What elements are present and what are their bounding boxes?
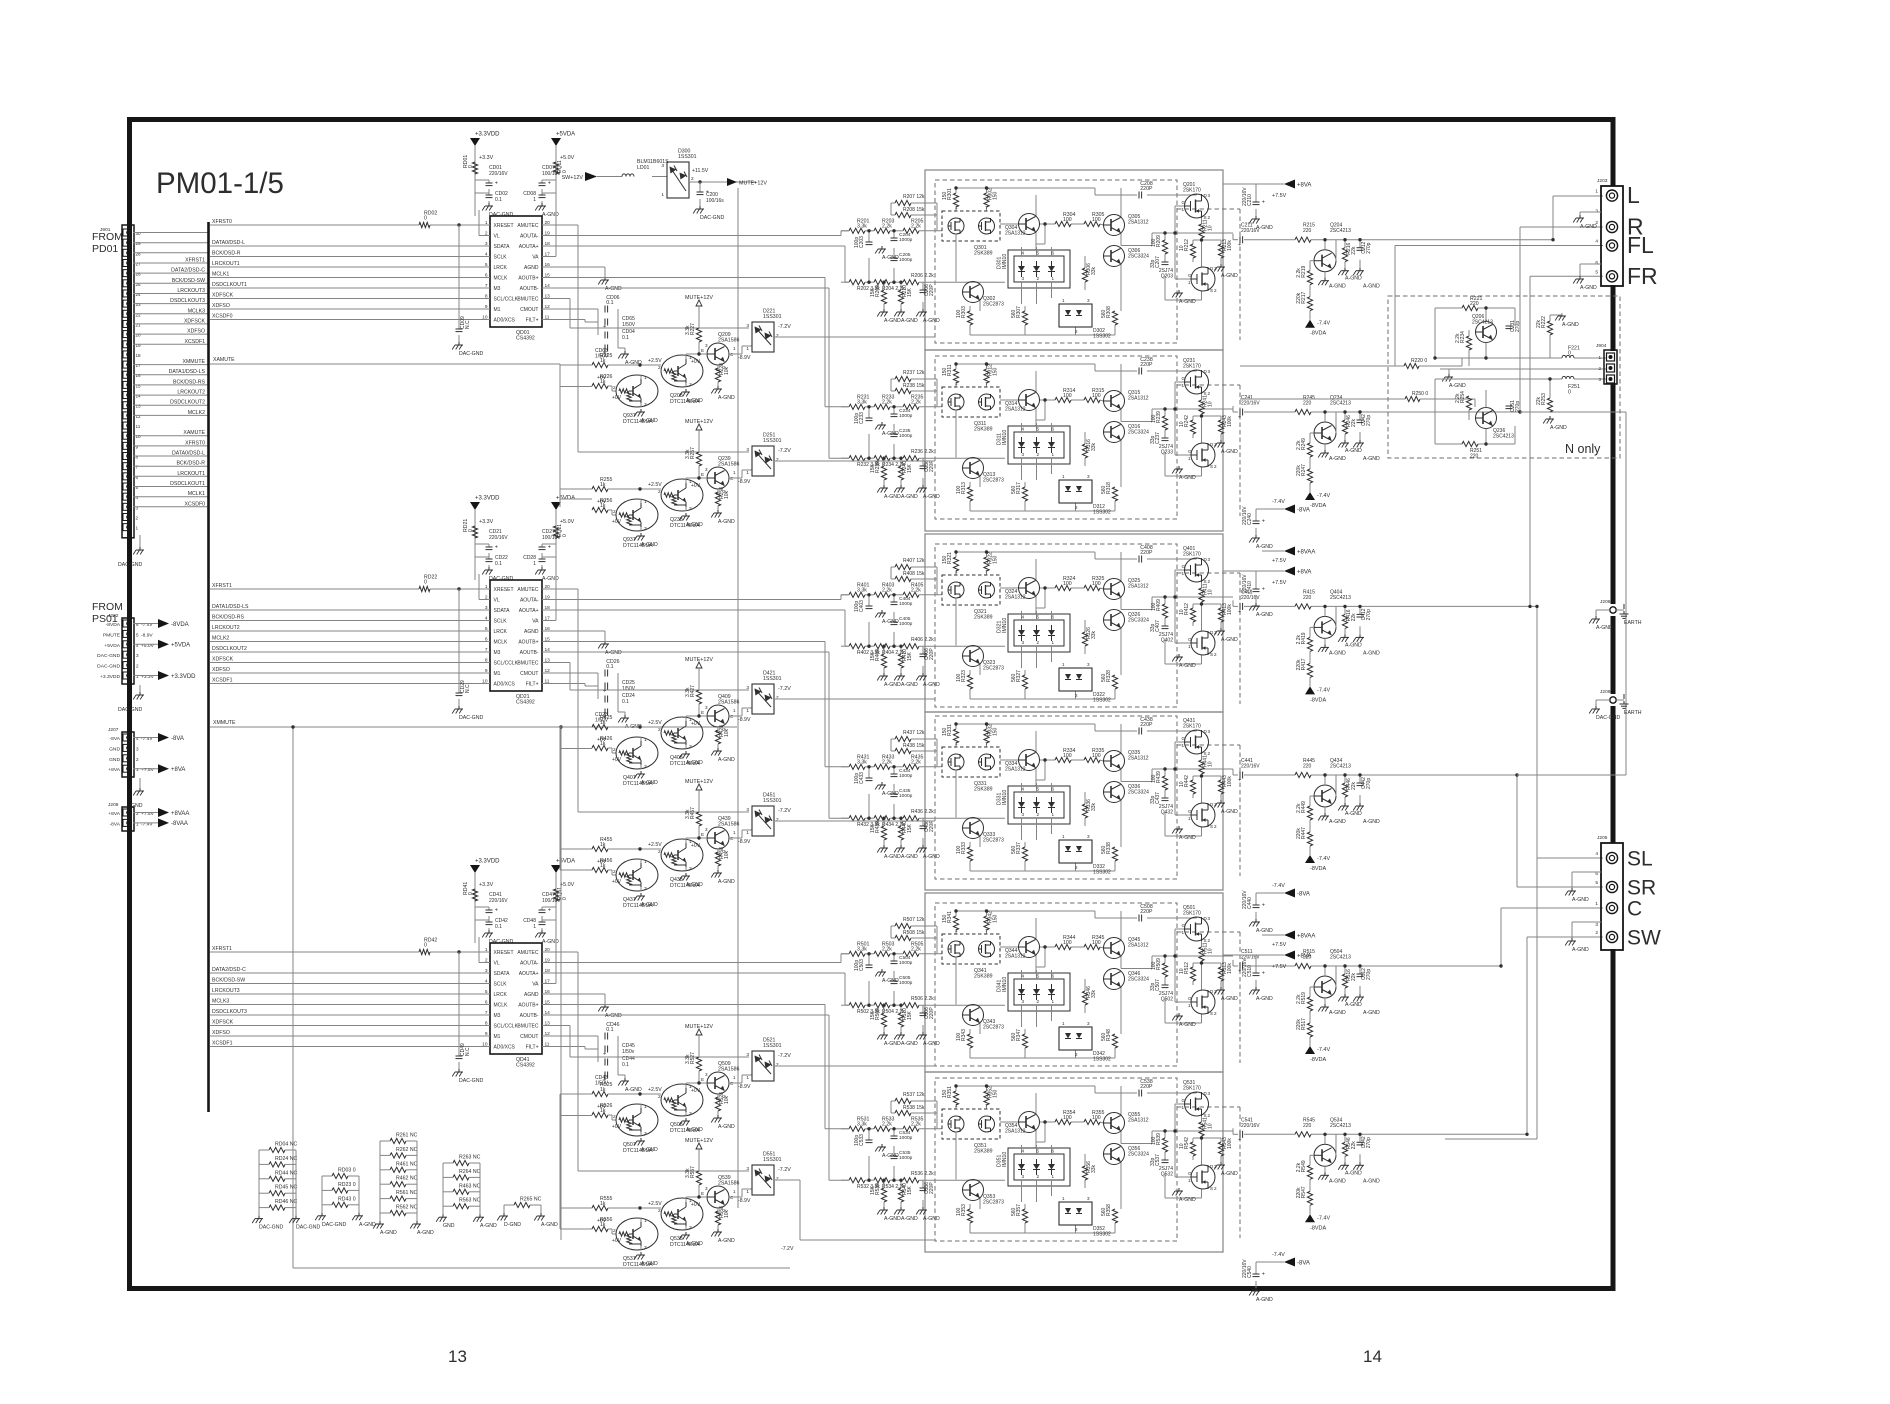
- svg-text:+8VAA: +8VAA: [1297, 933, 1315, 939]
- svg-text:1SS301: 1SS301: [763, 798, 782, 804]
- svg-text:2: 2: [1075, 329, 1078, 334]
- svg-text:100: 100: [1063, 217, 1072, 223]
- wire net LRCKOUT2: [210, 630, 490, 632]
- svg-text:3: 3: [1208, 557, 1211, 562]
- svg-text:R462 NC: R462 NC: [396, 1176, 418, 1182]
- svg-text:+0V: +0V: [597, 859, 607, 865]
- svg-text:1000p: 1000p: [899, 773, 913, 779]
- resistor R345: [1084, 935, 1105, 950]
- svg-text:XDFSO: XDFSO: [187, 329, 205, 335]
- capacitor C434: [891, 774, 898, 777]
- wire mute feed: [560, 488, 592, 490]
- svg-text:A-GND: A-GND: [641, 418, 658, 424]
- svg-text:2SA1586: 2SA1586: [718, 462, 739, 468]
- transistor Q325b: [1104, 579, 1125, 600]
- wire J207 pin1: [133, 768, 158, 770]
- resistor R446: [1342, 783, 1347, 797]
- svg-text:FR: FR: [1627, 263, 1658, 289]
- svg-text:220k: 220k: [1296, 465, 1302, 476]
- svg-text:10: 10: [1179, 968, 1185, 974]
- capacitor C241: [1238, 409, 1243, 421]
- svg-text:DATA1/DSD-LS: DATA1/DSD-LS: [212, 604, 249, 610]
- svg-text:A-GND: A-GND: [1221, 273, 1238, 279]
- power +5VDA rail 1: [551, 132, 575, 147]
- svg-text:A-GND: A-GND: [1179, 1022, 1196, 1028]
- transistor Q439: [707, 827, 729, 849]
- svg-text:XFRST0: XFRST0: [185, 440, 205, 446]
- svg-text:SCLK: SCLK: [494, 619, 508, 625]
- wire BMUTEC route: [556, 299, 749, 329]
- svg-text:2.2k: 2.2k: [911, 588, 921, 594]
- svg-text:+8VA: +8VA: [1297, 953, 1311, 959]
- svg-text:3: 3: [705, 1186, 708, 1191]
- svg-text:A-GND: A-GND: [718, 519, 735, 525]
- wire in lower: [841, 457, 1005, 459]
- svg-text:A-GND: A-GND: [1256, 544, 1273, 550]
- svg-text:100k: 100k: [1227, 240, 1233, 251]
- diode D322: [1059, 662, 1111, 704]
- capacitor C231: [1506, 326, 1513, 329]
- resistor R504: [874, 1003, 890, 1008]
- wire net XFRST0: [210, 224, 490, 226]
- svg-text:220/16V: 220/16V: [1242, 574, 1248, 593]
- resistor R211: [1199, 224, 1204, 238]
- svg-text:1: 1: [955, 928, 958, 933]
- resistor R525: [592, 1082, 613, 1097]
- wire 5V rail: [555, 146, 557, 216]
- svg-text:A-GND: A-GND: [882, 978, 899, 984]
- wire mute in: [608, 364, 661, 366]
- svg-text:20: 20: [136, 333, 142, 338]
- svg-text:A-GND: A-GND: [1179, 663, 1196, 669]
- wire QD41 pin18 stub: [542, 972, 556, 974]
- resistor R542: [1190, 1142, 1195, 1156]
- svg-text:-8VDA: -8VDA: [1310, 503, 1327, 509]
- svg-text:220P: 220P: [1140, 1084, 1153, 1090]
- capacitor C408: [1139, 545, 1153, 563]
- svg-text:33k: 33k: [1091, 630, 1097, 639]
- svg-text:1SS301: 1SS301: [763, 676, 782, 682]
- wire QD41 pin15 stub: [542, 1004, 556, 1006]
- wire net XCSDF1: [210, 1046, 490, 1048]
- ground A-GND q: [1318, 644, 1329, 652]
- svg-text:220/16V: 220/16V: [1241, 401, 1260, 407]
- ground ground DAC-GND: [289, 1216, 300, 1224]
- wire mute in: [608, 1093, 661, 1095]
- capacitor CD23: [603, 709, 608, 721]
- svg-text:A-GND: A-GND: [641, 542, 658, 548]
- svg-text:11: 11: [136, 424, 141, 429]
- connector J207: [108, 732, 154, 777]
- capacitor CD07: [539, 181, 551, 187]
- svg-text:LD01: LD01: [637, 165, 650, 171]
- transistor Q336b: [1104, 782, 1125, 803]
- resistor R461: [390, 1161, 418, 1172]
- resistor R513: [1218, 967, 1223, 981]
- resistor R322: [984, 557, 989, 571]
- svg-text:30: 30: [136, 231, 142, 236]
- svg-text:4: 4: [1022, 1149, 1025, 1154]
- svg-text:+0V: +0V: [691, 1202, 701, 1208]
- svg-text:+: +: [1262, 1272, 1265, 1278]
- svg-text:100: 100: [1151, 238, 1157, 247]
- svg-text:2SK170: 2SK170: [1183, 552, 1201, 558]
- ground A-GND c206: [916, 1207, 940, 1222]
- resistor R307: [1022, 311, 1027, 325]
- svg-text:1SS302: 1SS302: [1093, 1232, 1111, 1238]
- svg-text:13: 13: [136, 404, 142, 409]
- ground A-GND cluster2: [618, 715, 642, 730]
- svg-text:R507 12k: R507 12k: [903, 917, 925, 923]
- svg-text:+7.5V: +7.5V: [141, 811, 155, 817]
- resistor R509: [881, 1013, 886, 1027]
- amplifier module box Q341: [925, 893, 1223, 1072]
- svg-text:A-GND: A-GND: [686, 882, 703, 888]
- ground A-GND r10: [894, 1032, 918, 1047]
- wire J901 pin22: [133, 313, 208, 315]
- capacitor C534: [891, 1136, 898, 1139]
- svg-text:-8.9V: -8.9V: [738, 717, 751, 723]
- wire signal AOUT: [542, 642, 849, 767]
- svg-text:2.2k: 2.2k: [1296, 1162, 1302, 1172]
- svg-text:33p: 33p: [1150, 1157, 1156, 1166]
- svg-text:2: 2: [658, 1208, 661, 1214]
- svg-text:1: 1: [1188, 456, 1191, 461]
- capacitor C533: [866, 1140, 873, 1143]
- svg-text:3: 3: [746, 1052, 749, 1058]
- resistor R409: [1162, 604, 1167, 618]
- capacitor C407: [1162, 626, 1169, 629]
- wire FILT+ to cluster: [542, 320, 598, 323]
- transistor Q206: [1476, 322, 1497, 343]
- power -8VDA Q204: [1305, 320, 1330, 337]
- ground A-GND J205a: [1565, 888, 1589, 903]
- resistor R228: [715, 368, 720, 382]
- svg-text:R461 NC: R461 NC: [396, 1161, 418, 1167]
- wire q wires: [1310, 966, 1360, 1046]
- svg-text:RD23 0: RD23 0: [338, 1182, 356, 1188]
- ground A-GND R528: [711, 1115, 735, 1130]
- wire N wires upper2: [1435, 308, 1606, 366]
- resistor R515: [1295, 963, 1311, 968]
- resistor R263: [453, 1155, 481, 1166]
- svg-text:A-GND: A-GND: [718, 1124, 735, 1130]
- svg-text:220P: 220P: [1140, 186, 1153, 192]
- svg-text:XMMUTE: XMMUTE: [213, 720, 236, 726]
- svg-text:-8.9V: -8.9V: [738, 479, 751, 485]
- resistor R436: [903, 816, 919, 821]
- wire out wires: [1152, 730, 1233, 836]
- wire BMUTEC route: [556, 663, 749, 691]
- svg-text:FROM: FROM: [92, 601, 123, 613]
- wire VA supply: [555, 574, 557, 621]
- ground A-GND c207: [1172, 1013, 1196, 1028]
- resistor R301: [953, 193, 958, 207]
- power flag MUTE+12V: [727, 178, 737, 186]
- svg-text:3: 3: [1022, 452, 1025, 457]
- resistor R212: [1190, 244, 1195, 258]
- svg-text:560: 560: [1101, 485, 1107, 494]
- resistor R562: [390, 1205, 418, 1216]
- resistor R257: [696, 452, 701, 466]
- svg-text:2: 2: [1214, 652, 1217, 657]
- resistor R409: [881, 654, 886, 668]
- svg-text:A-GND: A-GND: [1256, 996, 1273, 1002]
- svg-text:22k: 22k: [1536, 396, 1542, 405]
- connector J203: [1595, 182, 1657, 289]
- svg-text:+3.3V: +3.3V: [479, 882, 494, 888]
- svg-text:R250 0: R250 0: [1412, 391, 1428, 397]
- svg-text:+: +: [1238, 242, 1241, 248]
- svg-text:24: 24: [136, 292, 142, 297]
- capacitor C505: [891, 981, 898, 984]
- wire stage wire: [1244, 605, 1537, 607]
- wire amp out to stage: [1233, 960, 1238, 966]
- resistor R407: [895, 564, 911, 569]
- wire J901 gnd stem: [139, 535, 141, 547]
- svg-text:3.3k: 3.3k: [857, 588, 867, 594]
- svg-text:270p: 270p: [1366, 415, 1372, 426]
- svg-text:28: 28: [136, 251, 142, 256]
- ground A-GND pwr1: [535, 203, 559, 218]
- svg-text:SW+12V: SW+12V: [562, 175, 584, 181]
- svg-text:E: E: [701, 1191, 704, 1196]
- svg-text:-7.4V: -7.4V: [1317, 687, 1330, 693]
- resistor R505: [903, 942, 924, 957]
- capacitor C503: [866, 965, 873, 968]
- svg-text:G: G: [1182, 200, 1186, 205]
- transistor Q937: [613, 499, 658, 532]
- ground A-GND Q507: [634, 1138, 658, 1153]
- svg-text:AOUTA-: AOUTA-: [520, 961, 539, 967]
- wire QD01 pin12 stub: [542, 308, 556, 310]
- svg-text:560: 560: [1011, 1032, 1017, 1041]
- svg-text:A-GND: A-GND: [1329, 819, 1346, 825]
- svg-text:3: 3: [746, 807, 749, 813]
- svg-text:A-GND: A-GND: [884, 1216, 901, 1222]
- power -8VDA Q504: [1305, 1046, 1330, 1063]
- svg-text:6: 6: [1052, 251, 1055, 256]
- svg-text:RD43 0: RD43 0: [338, 1196, 356, 1202]
- svg-text:220/16V: 220/16V: [1242, 506, 1248, 525]
- dashed output boundary: [1177, 744, 1240, 746]
- ground A-GND Q538: [679, 1232, 703, 1247]
- wire r bias verts: [884, 282, 923, 309]
- ground A-GND c207: [1172, 1188, 1196, 1203]
- svg-text:A-GND: A-GND: [417, 1230, 434, 1236]
- op-amp QD01 CS4392 DAC: [490, 216, 542, 327]
- wire net DATA0/DSD-L: [210, 245, 490, 247]
- wire in bias: [891, 379, 937, 407]
- transistor Q233: [1188, 442, 1217, 469]
- svg-text:DATA2/DSD-C: DATA2/DSD-C: [212, 967, 246, 973]
- wire supply: [1256, 571, 1284, 603]
- svg-text:A-GND: A-GND: [882, 431, 899, 437]
- ground A-GND r10: [894, 845, 918, 860]
- svg-text:220P: 220P: [1140, 362, 1153, 368]
- svg-text:220P: 220P: [929, 460, 935, 472]
- ground A-GND rc: [1338, 803, 1349, 811]
- resistor R539: [1162, 1138, 1167, 1152]
- wire array rails: [504, 1205, 541, 1213]
- wire QD41 pin20 stub: [542, 951, 556, 953]
- ground DAC-GND under J202: [133, 692, 144, 700]
- svg-text:2: 2: [1208, 215, 1211, 220]
- svg-text:+8VA: +8VA: [108, 767, 120, 773]
- svg-text:1: 1: [746, 830, 749, 836]
- capacitor C204: [891, 238, 898, 241]
- svg-text:2: 2: [1075, 1052, 1078, 1057]
- resistor RQ51: [553, 889, 558, 901]
- wire supply: [1256, 955, 1284, 987]
- svg-text:XCSDF1: XCSDF1: [185, 339, 206, 345]
- resistor R502: [849, 1003, 865, 1008]
- svg-text:15K: 15K: [870, 1010, 876, 1020]
- svg-text:29: 29: [136, 241, 142, 246]
- resistor R262: [390, 1147, 418, 1158]
- svg-text:AD0/XCS: AD0/XCS: [494, 318, 516, 324]
- ground A-GND C540: [1249, 1288, 1273, 1303]
- svg-text:2: 2: [1075, 693, 1078, 698]
- svg-text:3: 3: [689, 506, 692, 512]
- svg-text:220/16V: 220/16V: [489, 898, 508, 904]
- svg-text:3: 3: [1087, 474, 1090, 479]
- wire filter verts: [869, 407, 894, 458]
- svg-text:2.2k: 2.2k: [911, 400, 921, 406]
- capacitor C438: [1139, 717, 1153, 735]
- ground A-GND filter: [875, 1144, 899, 1159]
- svg-text:2SC3324: 2SC3324: [1128, 977, 1149, 983]
- svg-text:LRCKOUT1: LRCKOUT1: [212, 261, 240, 267]
- transistor Q438: [658, 839, 703, 872]
- transistor Q351: [942, 1103, 1000, 1155]
- svg-text:A-GND: A-GND: [718, 879, 735, 885]
- ground A-GND c206: [916, 485, 940, 500]
- capacitor CD46: [605, 1022, 620, 1040]
- svg-text:1: 1: [1052, 999, 1055, 1004]
- wire out wires: [1152, 917, 1233, 1023]
- resistor R549: [1307, 1165, 1312, 1179]
- svg-text:1: 1: [533, 561, 536, 567]
- capacitor CD45: [603, 1046, 608, 1058]
- ground A-GND rc: [1338, 440, 1349, 448]
- svg-text:R508 15k: R508 15k: [903, 930, 925, 936]
- svg-text:A-GND: A-GND: [1363, 456, 1380, 462]
- ground DAC-GND under J901: [133, 547, 144, 555]
- power flag +8VA C410: [1284, 567, 1311, 576]
- svg-text:2.2k: 2.2k: [1455, 393, 1461, 403]
- svg-text:SCL/CCLK: SCL/CCLK: [494, 1024, 519, 1030]
- svg-text:3: 3: [644, 764, 647, 770]
- svg-text:A-GND: A-GND: [1329, 1178, 1346, 1184]
- svg-text:2: 2: [776, 695, 779, 701]
- wire QD01 pin16 stub: [542, 266, 556, 268]
- svg-text:LRCK: LRCK: [494, 629, 508, 635]
- svg-text:3: 3: [689, 1225, 692, 1231]
- svg-text:1000p: 1000p: [899, 433, 913, 439]
- resistor R508: [895, 935, 911, 940]
- capacitor CD65: [603, 319, 608, 331]
- svg-text:220/16V: 220/16V: [1241, 1123, 1260, 1129]
- svg-text:RD44 NC: RD44 NC: [275, 1170, 297, 1176]
- wire signal AOUT: [542, 610, 849, 646]
- svg-text:S: S: [1204, 938, 1207, 943]
- wire signal AOUT: [542, 954, 849, 963]
- wire J901 pin12: [133, 414, 208, 416]
- svg-text:-7.2V: -7.2V: [778, 448, 791, 454]
- svg-text:A-GND: A-GND: [605, 650, 622, 656]
- svg-text:100k: 100k: [1227, 1138, 1233, 1149]
- svg-text:S: S: [1204, 215, 1207, 220]
- svg-text:15K: 15K: [907, 823, 913, 833]
- resistor R563: [453, 1198, 481, 1209]
- ground A-GND Q407: [634, 771, 658, 786]
- svg-text:7: 7: [985, 205, 988, 210]
- svg-text:G: G: [1188, 809, 1192, 814]
- svg-text:100: 100: [1063, 753, 1072, 759]
- svg-text:SDATA: SDATA: [494, 244, 511, 250]
- resistor R250: [1405, 396, 1420, 401]
- wire QD21 pin13 stub: [542, 662, 556, 664]
- svg-text:2: 2: [658, 849, 661, 855]
- diode D352: [1059, 1196, 1111, 1238]
- wire net BCK/DSD-R: [210, 256, 490, 258]
- ground A-GND cluster1: [618, 351, 642, 366]
- ground A-GND R458: [711, 870, 735, 885]
- svg-text:BCK/DSD-SW: BCK/DSD-SW: [212, 978, 245, 984]
- svg-text:XDFSCK: XDFSCK: [212, 1020, 234, 1026]
- ground A-GND J205b: [1565, 938, 1589, 953]
- svg-text:3: 3: [746, 447, 749, 453]
- svg-text:PM01-1/5: PM01-1/5: [156, 167, 284, 200]
- capacitor C540: [1253, 1272, 1265, 1278]
- svg-text:2.2k: 2.2k: [882, 224, 892, 230]
- svg-text:2SK170: 2SK170: [1183, 911, 1201, 917]
- resistor R315: [1084, 388, 1105, 403]
- svg-text:21: 21: [136, 322, 142, 327]
- svg-text:100k: 100k: [1227, 963, 1233, 974]
- svg-text:26: 26: [136, 272, 142, 277]
- svg-text:R262 NC: R262 NC: [396, 1147, 418, 1153]
- wire J207 pin4: [133, 737, 158, 739]
- ground A-GND c207: [1172, 826, 1196, 841]
- svg-text:A-GND: A-GND: [1329, 650, 1346, 656]
- svg-text:+7.5V: +7.5V: [141, 767, 155, 773]
- svg-text:XDFSO: XDFSO: [212, 1030, 230, 1036]
- svg-text:5: 5: [136, 632, 139, 637]
- transistor Q353b: [963, 1180, 984, 1201]
- svg-text:15K: 15K: [907, 1010, 913, 1020]
- svg-text:S: S: [1210, 1011, 1213, 1016]
- wire fet links: [956, 724, 1152, 871]
- svg-text:R264 NC: R264 NC: [459, 1169, 481, 1175]
- wire J206 right: [1616, 604, 1624, 610]
- svg-text:100/10V: 100/10V: [542, 898, 561, 904]
- resistor R336: [1082, 804, 1087, 818]
- svg-text:J207: J207: [108, 727, 119, 733]
- wire N wires lower: [1435, 379, 1606, 444]
- svg-text:BMUTEC: BMUTEC: [517, 661, 539, 667]
- svg-text:100: 100: [1151, 414, 1157, 423]
- svg-text:10k: 10k: [724, 728, 730, 737]
- wire top rail: [956, 364, 1197, 387]
- resistor R509: [1162, 963, 1167, 977]
- svg-text:AOUTB-: AOUTB-: [520, 286, 539, 292]
- resistor R325: [1084, 576, 1105, 591]
- wire QD01 pin20 stub: [542, 224, 556, 226]
- svg-text:4: 4: [1595, 239, 1598, 245]
- wire L route: [1553, 196, 1603, 240]
